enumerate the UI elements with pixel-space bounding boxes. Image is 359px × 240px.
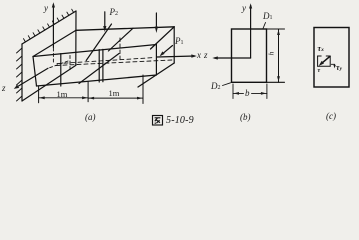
- beam rear-top edge: [76, 27, 174, 31]
- top-face cut diagonal d1: [86, 24, 111, 61]
- (b) b dimension line: [233, 92, 244, 94]
- label D1: [263, 11, 273, 21]
- label z (b): [204, 50, 208, 60]
- caption (c): [326, 111, 336, 121]
- dimension line 1m (second): [88, 97, 143, 99]
- x-axis: [157, 56, 195, 57]
- (c) diagonal stress arrow: [321, 56, 330, 64]
- (b) h dimension line: [278, 29, 280, 82]
- detail (c) outer rectangle: [314, 28, 349, 88]
- hidden x-axis inside beam (dashed): [57, 58, 154, 64]
- tiny mark under (c) arrow: [318, 68, 321, 74]
- wall right edge: [75, 11, 77, 65]
- y-axis: [52, 5, 54, 48]
- root section vertical at wall: [60, 54, 62, 86]
- wall top edge: [22, 11, 76, 44]
- beam rear-bottom hidden edge (dashed): [56, 60, 172, 66]
- hidden z-axis inside beam (dashed): [48, 61, 68, 68]
- force P1 arrow: [162, 46, 173, 55]
- interior diagonal on front face: [79, 54, 119, 84]
- hidden vertical (dashed): [119, 38, 121, 60]
- beam end-face front edge: [155, 45, 157, 76]
- wall left edge: [21, 44, 23, 101]
- dimension extension tick right: [142, 75, 144, 104]
- D2 leader tick: [223, 83, 231, 86]
- force P2 arrow: [104, 12, 106, 30]
- (b) b dimension extension lines: [232, 84, 234, 99]
- beam end-face bottom edge: [138, 63, 174, 87]
- label b: [245, 88, 250, 98]
- section (b) rectangle: [232, 29, 267, 82]
- hidden y-axis inside beam (dashed): [52, 48, 54, 64]
- label 1m first: [57, 89, 68, 99]
- label 1m second: [109, 88, 120, 98]
- (b) top edge extension: [267, 28, 285, 30]
- hidden vertical near wall (dashed): [69, 56, 71, 72]
- caption (a): [85, 112, 96, 122]
- label x (a): [197, 50, 201, 60]
- wall left hatching: [17, 48, 23, 101]
- caption (b): [240, 112, 251, 122]
- top-face cut diagonal d2: [108, 28, 133, 51]
- dimension extension tick left: [38, 87, 40, 103]
- section cut vertical on front face (pair): [98, 50, 100, 82]
- beam top-left edge: [33, 30, 76, 56]
- beam front-top edge: [33, 45, 156, 57]
- wall top hatching: [24, 9, 74, 42]
- label y (b): [242, 3, 246, 13]
- beam front-bottom edge: [37, 75, 157, 86]
- (c) tau-y arrow: [331, 64, 334, 66]
- label P1: [175, 36, 184, 46]
- (b) y-axis: [250, 6, 252, 59]
- beam rear-right edge: [173, 27, 175, 63]
- (c) stress element square: [318, 56, 331, 66]
- label P2: [110, 7, 119, 17]
- label D2: [211, 81, 221, 91]
- caption figure number text: [166, 115, 194, 126]
- beam front-left edge: [33, 57, 37, 87]
- beam end-face top edge: [151, 27, 175, 49]
- wall bottom edge: [22, 65, 76, 101]
- dimension extension tick middle: [87, 82, 89, 102]
- caption glyph 图: [153, 116, 163, 126]
- D1 leader tick: [263, 23, 266, 29]
- (b) bottom edge extension: [267, 81, 285, 83]
- (b) z-axis: [215, 57, 251, 59]
- dimension line 1m (first): [39, 97, 89, 99]
- z-axis: [16, 68, 48, 87]
- label y (a): [44, 3, 48, 13]
- label h (rotated): [266, 52, 275, 56]
- label tau-x: [318, 44, 324, 53]
- force arrow at free end section: [155, 13, 157, 26]
- label z (a): [2, 83, 6, 93]
- label tau-y: [336, 63, 342, 72]
